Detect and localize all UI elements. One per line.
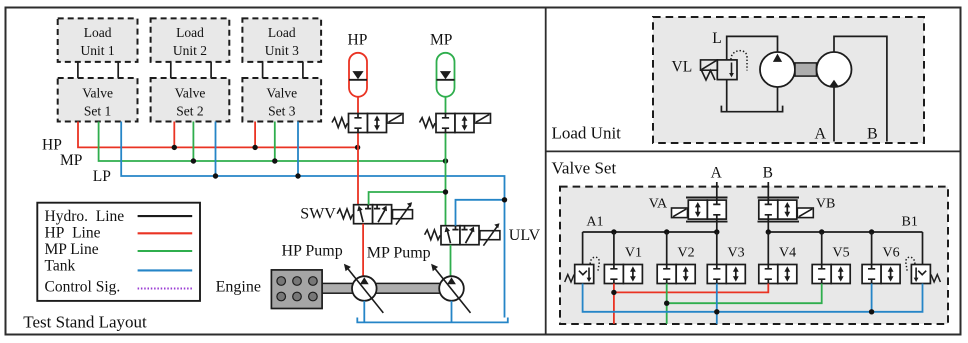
svg-text:V4: V4 bbox=[779, 246, 796, 261]
valve set detail dashed box bbox=[560, 187, 948, 324]
svg-text:V6: V6 bbox=[883, 246, 900, 261]
wire V3 top bbox=[716, 232, 718, 265]
svg-text:Unit 2: Unit 2 bbox=[173, 43, 207, 58]
svg-text:Hydro. Line: Hydro. Line bbox=[45, 208, 125, 225]
svg-text:ULV: ULV bbox=[509, 227, 541, 244]
wire SWV green branch bbox=[369, 192, 446, 205]
junction dots MP bus bbox=[191, 158, 196, 163]
wire SWV to HP pump bbox=[362, 224, 364, 277]
svg-text:Engine: Engine bbox=[216, 278, 261, 295]
svg-text:V5: V5 bbox=[833, 246, 850, 261]
wire MP accumulator line bbox=[445, 97, 447, 226]
valve V2 bbox=[657, 265, 695, 284]
solenoid VB bbox=[797, 208, 813, 218]
wire V1 top bbox=[613, 232, 615, 265]
svg-text:LP: LP bbox=[93, 168, 111, 185]
wire VB down bbox=[767, 219, 769, 232]
valve V1 bbox=[604, 265, 642, 284]
accumulator HP bbox=[349, 53, 367, 97]
svg-text:SWV: SWV bbox=[300, 205, 336, 222]
svg-text:Set 3: Set 3 bbox=[268, 103, 296, 118]
valve VA bbox=[688, 200, 726, 219]
valve set 2 box bbox=[151, 78, 230, 122]
svg-text:Valve: Valve bbox=[266, 86, 297, 101]
spring HP valve bbox=[332, 118, 348, 128]
actuator ULV bbox=[480, 223, 500, 245]
wire VS3 MP stub bbox=[274, 122, 276, 162]
svg-text:V1: V1 bbox=[625, 246, 642, 261]
valve V6 bbox=[862, 265, 900, 284]
wire HP pump to tank bbox=[363, 301, 365, 323]
wire VS3 HP stub bbox=[254, 122, 256, 148]
svg-text:HP Pump: HP Pump bbox=[282, 243, 343, 260]
valve set 1 box bbox=[58, 78, 138, 122]
svg-text:A1: A1 bbox=[586, 215, 603, 230]
svg-text:HP: HP bbox=[42, 136, 62, 153]
load unit 3 box bbox=[242, 18, 321, 62]
wire green V2 to V5 bbox=[667, 284, 822, 324]
svg-text:Valve: Valve bbox=[82, 86, 113, 101]
solenoid HP valve bbox=[387, 114, 403, 124]
svg-text:A: A bbox=[815, 125, 827, 142]
svg-text:Set 1: Set 1 bbox=[84, 103, 111, 118]
pump MP variable bbox=[431, 264, 470, 313]
valve HP accumulator 2/2 bbox=[349, 114, 387, 133]
svg-text:Valve Set: Valve Set bbox=[552, 158, 617, 177]
svg-text:MP: MP bbox=[430, 32, 452, 49]
load unit 2 box bbox=[151, 18, 230, 62]
wire MP pump to tank bbox=[451, 301, 453, 323]
wire A to VA bbox=[716, 182, 718, 200]
svg-text:V3: V3 bbox=[728, 246, 745, 261]
wire HP accumulator line bbox=[357, 97, 359, 205]
node B1 bus bbox=[768, 231, 922, 233]
svg-text:A: A bbox=[711, 164, 723, 181]
shaft load unit bbox=[795, 63, 817, 76]
svg-text:Control Sig.: Control Sig. bbox=[45, 278, 121, 295]
legend box bbox=[37, 203, 200, 301]
wire connectors LU3-VS3 bbox=[263, 62, 303, 78]
wire VS2 MP stub bbox=[192, 122, 194, 162]
svg-text:VA: VA bbox=[649, 197, 668, 212]
junction dots blue bbox=[714, 309, 719, 314]
actuator SWV bbox=[393, 202, 413, 224]
panel divider vertical bbox=[545, 8, 547, 335]
engine block bbox=[271, 270, 322, 309]
node HP bus bbox=[78, 122, 358, 148]
wire ULV blue branch bbox=[456, 200, 505, 226]
wire tank line bbox=[357, 318, 508, 323]
node LP bus bbox=[121, 122, 504, 318]
node A1 bus bbox=[583, 231, 717, 233]
svg-text:MP Pump: MP Pump bbox=[367, 245, 431, 262]
spring ULV bbox=[425, 230, 441, 240]
spring SWV bbox=[337, 209, 353, 219]
svg-text:HP: HP bbox=[348, 32, 368, 49]
node MP bus bbox=[99, 122, 446, 162]
plates VB bbox=[758, 198, 800, 222]
wire B side bbox=[834, 36, 887, 141]
spring MP valve bbox=[420, 118, 436, 128]
svg-text:L: L bbox=[712, 30, 721, 47]
svg-text:Unit 1: Unit 1 bbox=[81, 43, 115, 58]
svg-text:VL: VL bbox=[672, 59, 693, 76]
motor left circle bbox=[760, 52, 795, 87]
svg-text:MP: MP bbox=[60, 152, 82, 169]
wire V4 top bbox=[767, 232, 769, 265]
svg-text:Set 2: Set 2 bbox=[176, 103, 203, 118]
valve SWV 3/2 bbox=[354, 205, 392, 224]
wire L to valve and motor bbox=[727, 36, 778, 60]
svg-text:Load: Load bbox=[268, 25, 296, 40]
junction dots A1 bus bbox=[611, 229, 616, 234]
solenoid MP valve bbox=[475, 114, 491, 124]
junction dot red bbox=[611, 290, 616, 295]
wire VS2 LP stub bbox=[215, 122, 217, 177]
wire VA down bbox=[716, 219, 718, 232]
valve set 3 box bbox=[242, 78, 321, 122]
valve VB bbox=[759, 200, 797, 219]
wire connectors LU1-VS1 bbox=[78, 62, 118, 78]
wire V6 top bbox=[871, 232, 873, 265]
tank symbol load unit bbox=[721, 106, 782, 112]
control signal VL pilot bbox=[731, 51, 747, 71]
wire V2 top bbox=[666, 232, 668, 265]
wire connectors LU2-VS2 bbox=[171, 62, 211, 78]
wire B to VB bbox=[767, 182, 769, 200]
wire red V1 to V4 bbox=[614, 284, 768, 324]
svg-text:MP Line: MP Line bbox=[45, 241, 99, 258]
svg-text:Load: Load bbox=[84, 25, 112, 40]
accumulator MP bbox=[437, 53, 455, 97]
plates VA bbox=[686, 198, 728, 222]
valve ULV 3/2 bbox=[441, 226, 479, 245]
shaft engine to pumps bbox=[322, 283, 452, 293]
junction dot blue branch bbox=[502, 197, 507, 202]
svg-text:Load: Load bbox=[176, 25, 204, 40]
wire VS3 LP stub bbox=[297, 122, 299, 177]
svg-text:Test Stand Layout: Test Stand Layout bbox=[23, 312, 147, 331]
junction dots LP bus bbox=[213, 173, 218, 178]
svg-text:Load Unit: Load Unit bbox=[552, 124, 622, 143]
wire VL drain bbox=[726, 80, 728, 112]
valve VL relief bbox=[701, 60, 738, 80]
relief valve right bbox=[906, 257, 941, 283]
relief valve left bbox=[565, 257, 600, 283]
svg-text:V2: V2 bbox=[678, 246, 695, 261]
svg-text:B1: B1 bbox=[902, 215, 918, 230]
wire B1 to relief right bbox=[922, 232, 924, 265]
svg-text:VB: VB bbox=[816, 197, 835, 212]
junction dots B1 bus bbox=[766, 229, 771, 234]
svg-text:B: B bbox=[867, 125, 878, 142]
svg-text:Unit 3: Unit 3 bbox=[265, 43, 299, 58]
valve MP accumulator 2/2 bbox=[436, 114, 474, 133]
pump HP variable bbox=[344, 264, 383, 313]
wire V5 top bbox=[821, 232, 823, 265]
motor right circle bbox=[817, 52, 852, 87]
junction dots HP bus bbox=[172, 145, 177, 150]
wire A side bbox=[833, 87, 835, 142]
wire VS2 HP stub bbox=[173, 122, 175, 148]
valve V3 bbox=[707, 265, 745, 284]
valve V4 bbox=[759, 265, 797, 284]
wire ULV to MP pump bbox=[450, 245, 452, 277]
load unit detail dashed box bbox=[653, 17, 924, 143]
junction dot green branch bbox=[443, 189, 448, 194]
solenoid VA bbox=[672, 208, 688, 218]
panel divider horizontal right bbox=[546, 150, 961, 152]
svg-text:HP Line: HP Line bbox=[45, 225, 101, 242]
svg-text:B: B bbox=[763, 164, 773, 181]
svg-text:Tank: Tank bbox=[45, 258, 76, 275]
wire blue tank bus valve set bbox=[583, 284, 923, 324]
svg-text:Valve: Valve bbox=[175, 86, 206, 101]
junction dot green bbox=[664, 301, 669, 306]
wire motor to tank bbox=[777, 87, 779, 112]
valve V5 bbox=[812, 265, 850, 284]
wire A1 to relief left bbox=[582, 232, 584, 265]
load unit 1 box bbox=[58, 18, 138, 62]
